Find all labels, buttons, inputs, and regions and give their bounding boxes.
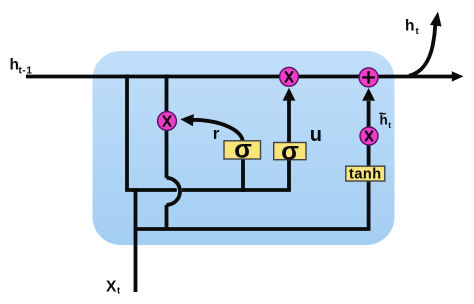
svg-text:h: h xyxy=(405,18,414,35)
svg-text:r: r xyxy=(213,124,220,143)
svg-text:tanh: tanh xyxy=(349,166,382,182)
svg-text:t-1: t-1 xyxy=(19,66,33,77)
svg-text:u: u xyxy=(310,124,322,146)
svg-text:~: ~ xyxy=(379,106,387,121)
svg-text:σ: σ xyxy=(281,136,299,166)
svg-text:X: X xyxy=(106,279,117,296)
svg-text:σ: σ xyxy=(234,134,252,164)
svg-text:t: t xyxy=(388,120,391,130)
